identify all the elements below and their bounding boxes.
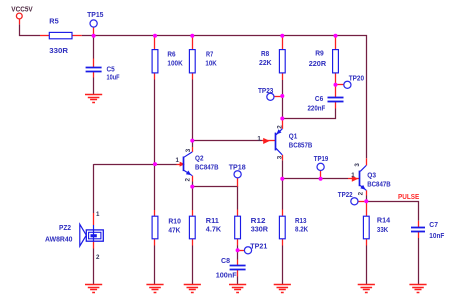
svg-text:220nF: 220nF <box>308 104 326 113</box>
svg-text:1: 1 <box>96 211 100 218</box>
svg-text:TP15: TP15 <box>87 10 103 19</box>
svg-text:TP19: TP19 <box>314 154 329 163</box>
svg-text:TP20: TP20 <box>349 74 364 83</box>
svg-text:10K: 10K <box>205 59 217 68</box>
svg-text:22K: 22K <box>259 58 272 67</box>
svg-text:10uF: 10uF <box>107 72 120 81</box>
svg-text:C7: C7 <box>429 220 438 229</box>
svg-text:220R: 220R <box>309 59 327 68</box>
svg-text:100nF: 100nF <box>216 270 238 279</box>
svg-text:2: 2 <box>357 191 364 195</box>
svg-text:8.2K: 8.2K <box>295 224 309 233</box>
svg-text:R7: R7 <box>206 50 213 59</box>
svg-text:4.7K: 4.7K <box>206 224 222 233</box>
svg-text:10nF: 10nF <box>429 231 444 240</box>
svg-text:Q3: Q3 <box>367 170 376 179</box>
svg-text:Q2: Q2 <box>195 154 204 163</box>
svg-text:1: 1 <box>351 172 355 179</box>
svg-text:R14: R14 <box>377 216 391 225</box>
svg-text:2: 2 <box>185 178 192 182</box>
svg-text:TP23: TP23 <box>258 86 273 95</box>
svg-text:PZ2: PZ2 <box>59 223 71 232</box>
svg-text:TP18: TP18 <box>229 163 246 172</box>
svg-text:100K: 100K <box>167 59 183 68</box>
svg-text:BC847B: BC847B <box>195 163 219 172</box>
svg-text:R9: R9 <box>315 49 324 58</box>
svg-text:1: 1 <box>257 135 261 142</box>
svg-text:R6: R6 <box>167 50 175 59</box>
svg-text:330R: 330R <box>251 224 269 233</box>
svg-text:R8: R8 <box>261 49 269 58</box>
svg-text:2: 2 <box>276 125 283 129</box>
svg-text:R5: R5 <box>49 17 58 26</box>
svg-text:TP21: TP21 <box>250 242 267 251</box>
svg-text:BC847B: BC847B <box>367 179 391 188</box>
svg-text:C8: C8 <box>221 256 230 265</box>
svg-text:C6: C6 <box>315 94 323 103</box>
svg-text:R10: R10 <box>168 216 181 225</box>
svg-text:47K: 47K <box>168 225 181 234</box>
svg-text:PULSE: PULSE <box>398 192 419 201</box>
svg-text:330R: 330R <box>49 46 68 55</box>
svg-text:3: 3 <box>354 163 361 167</box>
svg-text:VCC5V: VCC5V <box>11 4 33 13</box>
svg-text:Q1: Q1 <box>289 131 298 140</box>
svg-text:2: 2 <box>96 254 100 261</box>
svg-text:AW8R40: AW8R40 <box>45 234 73 243</box>
svg-text:3: 3 <box>276 155 283 159</box>
svg-text:1: 1 <box>176 157 180 164</box>
svg-text:33K: 33K <box>377 225 389 234</box>
svg-text:BC857B: BC857B <box>289 140 313 149</box>
svg-text:TP22: TP22 <box>338 190 353 199</box>
svg-text:3: 3 <box>185 148 192 152</box>
